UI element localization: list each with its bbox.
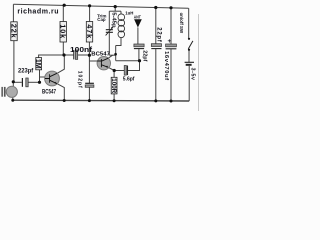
node Q1 emitter gnd — [63, 99, 66, 102]
wire C5 bottom to node — [138, 49, 140, 61]
wire C7 top lead — [170, 8, 172, 44]
wire tank drop to collector line — [115, 46, 117, 61]
wire mic top lead — [12, 82, 14, 86]
wire Q2 collector lead — [108, 55, 112, 58]
capacitor C4 5.6pf — [123, 66, 135, 83]
svg-text:102pf: 102pf — [76, 71, 82, 89]
svg-text:22pf: 22pf — [156, 27, 162, 42]
svg-text:on/off SW: on/off SW — [179, 13, 184, 34]
svg-text:16v470uf: 16v470uf — [163, 51, 169, 81]
svg-text:100nf: 100nf — [70, 45, 93, 54]
node top rail C7 — [169, 6, 172, 9]
node C6 gnd — [154, 99, 157, 102]
wire Q2 collector bar — [109, 54, 115, 56]
wire left drop to R1 — [12, 4, 14, 22]
wire J1 to C2 — [64, 54, 73, 56]
wire R4 bottom through J2 to C3 — [88, 42, 90, 83]
node Q2 emitter — [113, 69, 116, 72]
wire R3 bottom to J1 — [62, 42, 64, 55]
capacitor C5 22pf antenna — [134, 44, 148, 62]
node top rail J — [63, 4, 66, 7]
wire tank feed from rail — [114, 7, 116, 12]
wire R4 top lead — [89, 6, 91, 22]
wire Q2 emitter lead — [108, 67, 114, 70]
wire C3 bottom to GND — [88, 87, 90, 100]
node mic top — [12, 80, 15, 83]
svg-text:BC547: BC547 — [91, 52, 110, 58]
svg-text:BC547: BC547 — [42, 88, 56, 95]
transistor Q1 BC547 — [42, 71, 59, 95]
resistor R1 22k — [9, 22, 18, 41]
trimmer capacitor CT 5-45p — [97, 12, 116, 35]
svg-text:100R: 100R — [110, 78, 117, 93]
antenna ANT — [134, 15, 142, 28]
capacitor C7 470uf — [163, 38, 176, 81]
wire tank top bus — [109, 10, 121, 12]
svg-text:1uH: 1uH — [125, 11, 134, 17]
svg-text:3-5v: 3-5v — [190, 68, 196, 81]
node J1 — [62, 53, 65, 56]
node C3 gnd — [88, 99, 91, 102]
wire Q1 collector lead — [57, 55, 64, 73]
wire coil bottom lead — [116, 38, 121, 46]
wire Q1 emitter lead — [57, 84, 64, 101]
wire C2 to node J2 — [78, 54, 90, 56]
node J2 — [88, 54, 91, 57]
node top rail C6 — [154, 6, 157, 9]
svg-text:1M: 1M — [34, 59, 41, 69]
wire GND bottom rail — [13, 99, 189, 102]
node mic gnd — [11, 99, 14, 102]
wire R2 top to node J1 — [39, 55, 64, 58]
resistor R2 1M — [34, 58, 41, 70]
wire trimmer bottom lead — [108, 32, 110, 55]
wire V+ top rail — [13, 4, 188, 8]
node top rail R4 — [88, 4, 91, 7]
wire C7 bottom lead — [170, 49, 172, 101]
border right edge — [197, 14, 199, 111]
svg-text:47k: 47k — [85, 24, 94, 39]
capacitor C3 102pf — [76, 71, 94, 89]
wire battery to GND corner — [188, 66, 190, 101]
wire right edge to switch — [188, 8, 190, 38]
wire trimmer top lead — [108, 11, 110, 30]
node antenna/collector — [138, 59, 141, 62]
capacitor C2 100nf — [70, 45, 93, 60]
wire C6 top lead — [155, 8, 157, 44]
wire switch to battery — [188, 50, 190, 63]
svg-text:Cap: Cap — [97, 17, 106, 22]
wire R3 top lead — [62, 5, 64, 21]
wire C6 bottom lead — [155, 49, 157, 101]
microphone MIC — [1, 86, 17, 97]
wire emitter node down to R5 — [113, 71, 115, 78]
switch SW on/off — [179, 13, 193, 51]
wire base node up to R2 — [39, 70, 41, 83]
wire collector line to antenna node — [116, 60, 140, 62]
capacitor C1 223pf — [18, 68, 34, 87]
resistor R3 10k — [59, 22, 68, 43]
node Q1 base — [38, 81, 41, 84]
resistor R5 100R — [110, 77, 117, 94]
svg-text:22pf: 22pf — [142, 50, 148, 61]
wire coil top lead — [120, 11, 122, 14]
wire Q1 base stub — [40, 76, 46, 78]
capacitor C6 22pf supply — [151, 27, 161, 48]
node Q2 collector bar — [114, 53, 117, 56]
node R5 gnd — [113, 99, 116, 102]
svg-text:22k: 22k — [9, 24, 18, 39]
wire C1 to base node — [28, 81, 39, 83]
svg-text:ANT: ANT — [134, 15, 141, 21]
wire mic bottom lead — [12, 97, 14, 100]
transistor Q2 BC547 — [91, 52, 110, 70]
svg-text:5-45p: 5-45p — [111, 12, 117, 28]
svg-text:richadm.ru: richadm.ru — [17, 9, 59, 16]
wire C4 to antenna node — [128, 61, 140, 71]
wire emitter node to C4 — [114, 70, 124, 72]
svg-text:+: + — [168, 38, 172, 45]
resistor R4 47k — [85, 22, 94, 43]
svg-text:10k: 10k — [59, 24, 68, 39]
wire mic node to C1 — [13, 81, 21, 83]
svg-text:5.6pf: 5.6pf — [123, 77, 135, 83]
wire R1 to mic node — [13, 41, 15, 83]
svg-text:223pf: 223pf — [18, 68, 34, 75]
wire Q2 base stub — [89, 60, 97, 62]
node C7 gnd — [170, 100, 173, 103]
wire antenna lead — [137, 28, 139, 45]
battery BT 3-5v — [185, 62, 196, 80]
node top rail tank — [114, 5, 117, 8]
wire R5 bottom to GND — [113, 94, 115, 101]
inductor L1 1uH — [118, 14, 125, 38]
